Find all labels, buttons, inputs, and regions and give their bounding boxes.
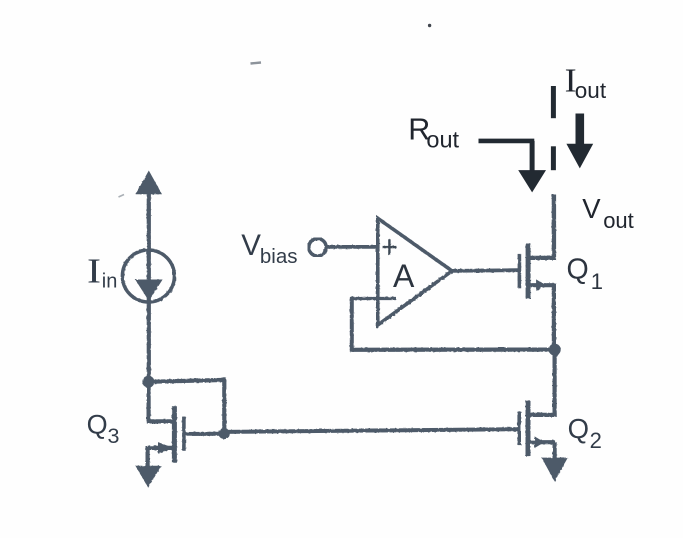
svg-text:out: out — [575, 78, 607, 103]
wire Q2 drain vertical — [552, 350, 556, 417]
svg-text:I: I — [87, 253, 101, 291]
svg-text:bias: bias — [260, 245, 298, 268]
transistor Q1 gate bar — [518, 254, 522, 288]
wire Q3 source horizontal — [148, 446, 174, 450]
current source I_in circle — [122, 250, 174, 302]
wire Q2 source horizontal — [530, 440, 555, 444]
node dot Q3 gate — [219, 428, 230, 439]
arrow Q2 source — [535, 436, 545, 448]
transistor Q1 channel bar — [526, 244, 531, 299]
arrow I_in up — [136, 171, 162, 195]
wire I_in shaft — [147, 190, 151, 383]
transistor Q2 gate bar — [517, 411, 521, 445]
wire feedback horizontal — [352, 348, 555, 352]
op-amp plus sign — [383, 239, 397, 255]
svg-text:1: 1 — [591, 269, 603, 294]
wire Vbias to op-amp — [326, 245, 378, 249]
wire Q2 drain horizontal — [530, 413, 557, 417]
wire Q1 source horizontal — [530, 283, 556, 287]
ground Q2 — [542, 458, 568, 482]
svg-text:2: 2 — [590, 428, 602, 453]
wire output dashed segment 2 — [551, 146, 556, 170]
arrow R_out vertical — [530, 141, 535, 173]
arrow R_out horizontal — [479, 139, 535, 144]
wire output dashed segment 1 — [551, 86, 556, 118]
arrow inside current source — [135, 280, 162, 302]
svg-text:A: A — [393, 258, 415, 294]
arrow I_out shaft — [575, 114, 584, 148]
svg-text:Q: Q — [567, 254, 589, 286]
svg-text:out: out — [426, 127, 459, 153]
svg-text:Q: Q — [568, 413, 589, 444]
terminal Vbias — [309, 239, 326, 256]
op-amp A triangle — [378, 218, 452, 325]
node dot Q3 drain — [142, 376, 154, 388]
arrow Q3 source — [158, 442, 174, 454]
svg-text:in: in — [102, 271, 118, 293]
black measurement annotations — [479, 86, 580, 173]
wire Q3 gate to node — [185, 432, 225, 436]
transistor Q2 channel bar — [526, 401, 531, 456]
svg-text:3: 3 — [108, 424, 120, 448]
stray speck — [428, 24, 431, 27]
stray mark top — [251, 63, 262, 64]
svg-text:V: V — [241, 229, 261, 262]
svg-text:V: V — [582, 193, 601, 224]
wire Q3 drain horizontal — [147, 419, 173, 423]
ground Q3 — [135, 466, 161, 488]
wire Q2 source vertical — [552, 442, 556, 459]
wire Q3 source vertical — [146, 446, 150, 468]
transistor Q3 gate bar — [182, 417, 186, 451]
transistor Q3 channel bar — [172, 406, 177, 463]
arrow Q1 source — [536, 279, 546, 291]
svg-text:out: out — [603, 208, 634, 233]
wire gate bus Q3 to Q2 — [224, 429, 518, 432]
wire diode loop top — [148, 380, 226, 382]
arrow I_out head — [566, 144, 593, 169]
op-amp minus input line — [352, 297, 396, 300]
stray mark left — [119, 195, 125, 198]
svg-text:Q: Q — [87, 409, 108, 439]
wire Q3 drain vertical — [147, 382, 151, 422]
wire diode loop right vertical — [222, 380, 226, 434]
wire Q1 source vertical — [552, 285, 556, 350]
wire Q1 drain horizontal — [530, 256, 556, 260]
wire Q1 drain vertical (output wire lower) — [552, 195, 556, 260]
wire op-amp output to Q1 gate — [451, 268, 518, 272]
node dot Q1 source / Q2 drain — [549, 344, 561, 356]
wire feedback vertical — [350, 297, 354, 352]
arrow R_out head — [518, 170, 546, 192]
